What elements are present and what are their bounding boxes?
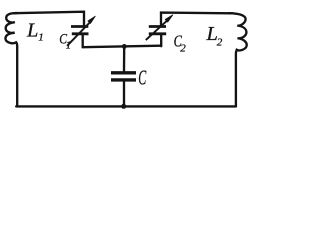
wire bottom — [16, 105, 236, 107]
capacitor C plates — [111, 73, 136, 80]
svg-text:1: 1 — [38, 31, 44, 43]
wire top-right (C2 top to L2 top) — [161, 13, 232, 26]
inductor L1 — [5, 13, 17, 106]
arrow of variable capacitor C2 — [146, 15, 173, 40]
capacitor C1 lower lead — [82, 35, 84, 47]
inductor L2 — [229, 13, 247, 106]
junction node top of C — [122, 44, 127, 49]
capacitor C middle branch leads — [123, 46, 126, 106]
svg-text:L: L — [26, 20, 38, 42]
label C1 — [59, 30, 71, 51]
svg-text:1: 1 — [66, 40, 72, 52]
junction node bottom of C — [121, 104, 126, 109]
arrow of variable capacitor C1 — [67, 16, 95, 46]
label C — [138, 66, 146, 89]
label L2 — [206, 23, 223, 48]
capacitor C2 plates — [149, 27, 166, 34]
capacitor C2 lower lead — [160, 35, 162, 46]
wire middle (C1 bottom to C2 bottom) — [83, 46, 161, 48]
label L1 — [26, 20, 44, 44]
svg-text:2: 2 — [217, 36, 223, 48]
svg-text:2: 2 — [180, 42, 186, 54]
wire top-left (L1 top to C1 top) — [14, 12, 84, 26]
svg-text:C: C — [138, 66, 146, 89]
capacitor C1 plates — [71, 27, 89, 34]
label C2 — [174, 33, 187, 55]
